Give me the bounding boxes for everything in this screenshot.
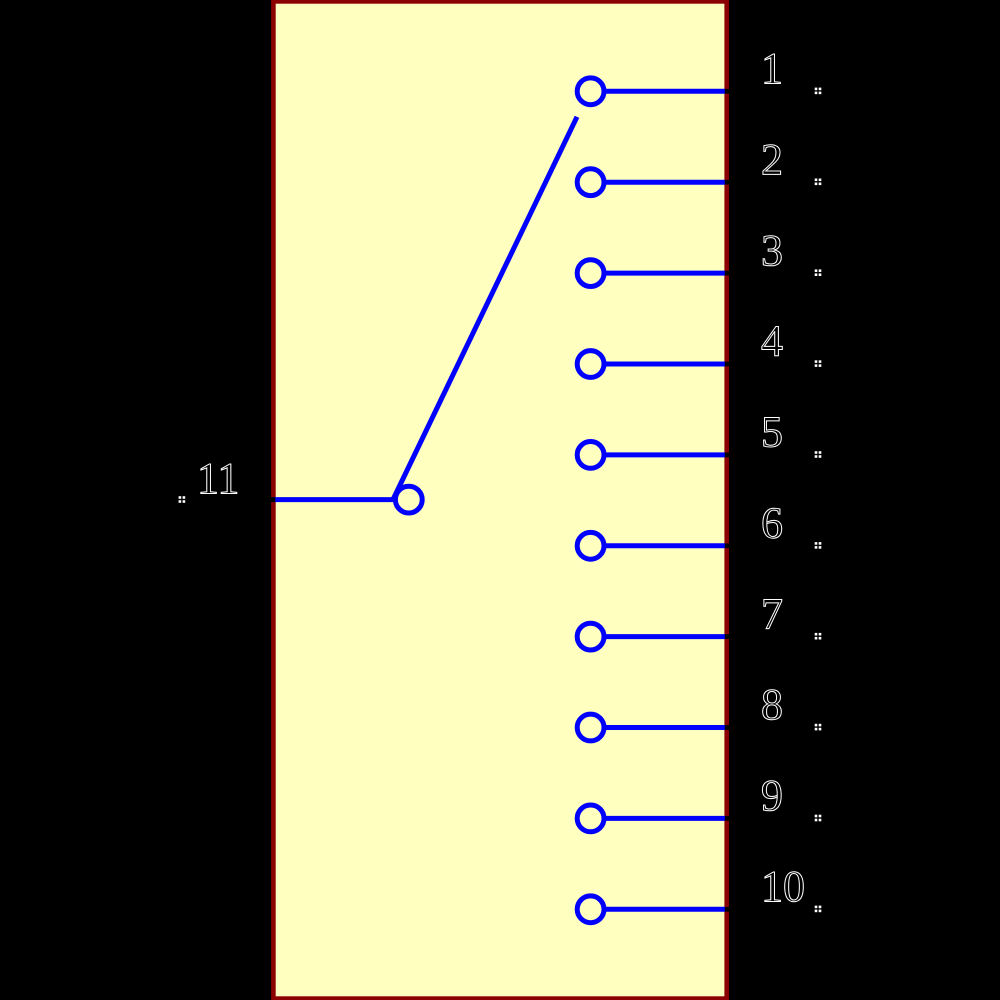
svg-text:3: 3 [761,226,783,275]
pin 3 attribute dots [815,269,822,276]
svg-text:9: 9 [761,771,783,820]
pin 11 wire (common) [271,497,396,502]
pin 6 wire [604,543,725,548]
pin 6 contact circle [577,532,604,559]
pin 9 end marker [725,816,730,821]
pin 4 contact circle [577,351,604,378]
switch arm (wiper from common pin 11 to throw 1) [393,117,577,500]
svg-text:2: 2 [761,135,783,184]
pin 2 attribute dots [815,179,822,186]
pin 11 attribute dots [179,496,186,503]
pin 5 contact circle [577,442,604,469]
pin 11 contact circle (pivot) [395,486,422,513]
svg-text:11: 11 [197,454,239,503]
pin 3 wire [604,271,725,276]
pin 8 end marker [725,725,730,730]
pin 8 wire [604,725,725,730]
svg-text:5: 5 [761,408,783,457]
pin 1 end marker [725,89,730,94]
pin 5 end marker [725,453,730,458]
svg-text:10: 10 [761,862,805,911]
pin 6 attribute dots [815,542,822,549]
pin 5 wire [604,452,725,457]
svg-text:8: 8 [761,680,783,729]
pin 8 attribute dots [815,724,822,731]
pin 10 end marker [725,907,730,912]
pin 4 wire [604,362,725,367]
svg-text:6: 6 [761,499,783,548]
pin 9 attribute dots [815,815,822,822]
pin 10 attribute dots [815,906,822,913]
pin 10 wire [604,907,725,912]
pin 2 wire [604,180,725,185]
pin 9 contact circle [577,805,604,832]
pin 9 wire [604,816,725,821]
pin 6 end marker [725,543,730,548]
pin 7 wire [604,634,725,639]
pin 3 contact circle [577,260,604,287]
pin 11 end marker [270,497,276,502]
pin 8 contact circle [577,714,604,741]
pin 2 contact circle [577,169,604,196]
svg-text:4: 4 [761,317,783,366]
pin 3 end marker [725,271,730,276]
pin 7 attribute dots [815,633,822,640]
pin 5 attribute dots [815,451,822,458]
pin 1 contact circle [577,78,604,105]
pin 7 contact circle [577,623,604,650]
svg-text:1: 1 [761,44,783,93]
pin 2 end marker [725,180,730,185]
pin 10 contact circle [577,896,604,923]
switch body (rotary switch symbol box) [273,1,726,998]
pin 7 end marker [725,634,730,639]
pin 4 end marker [725,362,730,367]
svg-text:7: 7 [761,589,783,638]
pin 4 attribute dots [815,360,822,367]
pin 1 wire [604,89,725,94]
pin 1 attribute dots [815,88,822,95]
